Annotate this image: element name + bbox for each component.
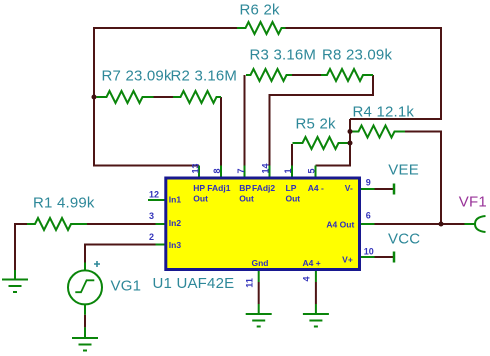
svg-text:HP: HP (193, 183, 205, 193)
svg-text:A4 -: A4 - (308, 183, 324, 193)
svg-text:R3 3.16M: R3 3.16M (250, 47, 317, 64)
svg-text:A4 Out: A4 Out (326, 219, 354, 229)
svg-text:VF1: VF1 (459, 193, 487, 210)
svg-text:FAdj2: FAdj2 (252, 183, 275, 193)
svg-text:Gnd: Gnd (252, 258, 269, 268)
svg-text:1: 1 (283, 168, 293, 173)
svg-text:U1 UAF42E: U1 UAF42E (153, 275, 235, 292)
svg-text:Out: Out (193, 194, 208, 204)
svg-text:6: 6 (366, 211, 371, 221)
svg-text:4: 4 (302, 276, 312, 281)
svg-text:10: 10 (364, 246, 374, 256)
svg-text:3: 3 (149, 211, 154, 221)
svg-text:VCC: VCC (388, 231, 420, 248)
svg-text:12: 12 (149, 189, 159, 199)
svg-text:R7 23.09k: R7 23.09k (102, 68, 172, 85)
svg-text:R1 4.99k: R1 4.99k (33, 195, 95, 212)
svg-text:In2: In2 (169, 218, 182, 228)
svg-text:VEE: VEE (388, 161, 419, 178)
svg-text:R8 23.09k: R8 23.09k (322, 47, 392, 64)
svg-text:8: 8 (212, 168, 222, 173)
svg-text:LP: LP (286, 183, 297, 193)
svg-text:V+: V+ (342, 254, 353, 264)
svg-text:Out: Out (239, 194, 254, 204)
svg-text:FAdj1: FAdj1 (207, 183, 230, 193)
svg-text:R5 2k: R5 2k (296, 116, 336, 133)
svg-text:In3: In3 (169, 240, 182, 250)
svg-text:In1: In1 (169, 194, 182, 204)
svg-text:V-: V- (345, 183, 353, 193)
svg-text:R2 3.16M: R2 3.16M (171, 68, 238, 85)
svg-text:2: 2 (149, 232, 154, 242)
svg-text:A4 +: A4 + (303, 258, 321, 268)
svg-text:Out: Out (286, 194, 301, 204)
svg-text:R4 12.1k: R4 12.1k (353, 104, 415, 121)
svg-text:R6 2k: R6 2k (240, 2, 280, 19)
svg-text:7: 7 (236, 168, 246, 173)
svg-text:11: 11 (245, 278, 255, 288)
svg-text:14: 14 (261, 163, 271, 173)
svg-text:13: 13 (191, 163, 201, 173)
svg-text:9: 9 (366, 178, 371, 188)
svg-text:VG1: VG1 (111, 278, 142, 295)
svg-text:5: 5 (307, 168, 317, 173)
svg-text:BP: BP (239, 183, 251, 193)
